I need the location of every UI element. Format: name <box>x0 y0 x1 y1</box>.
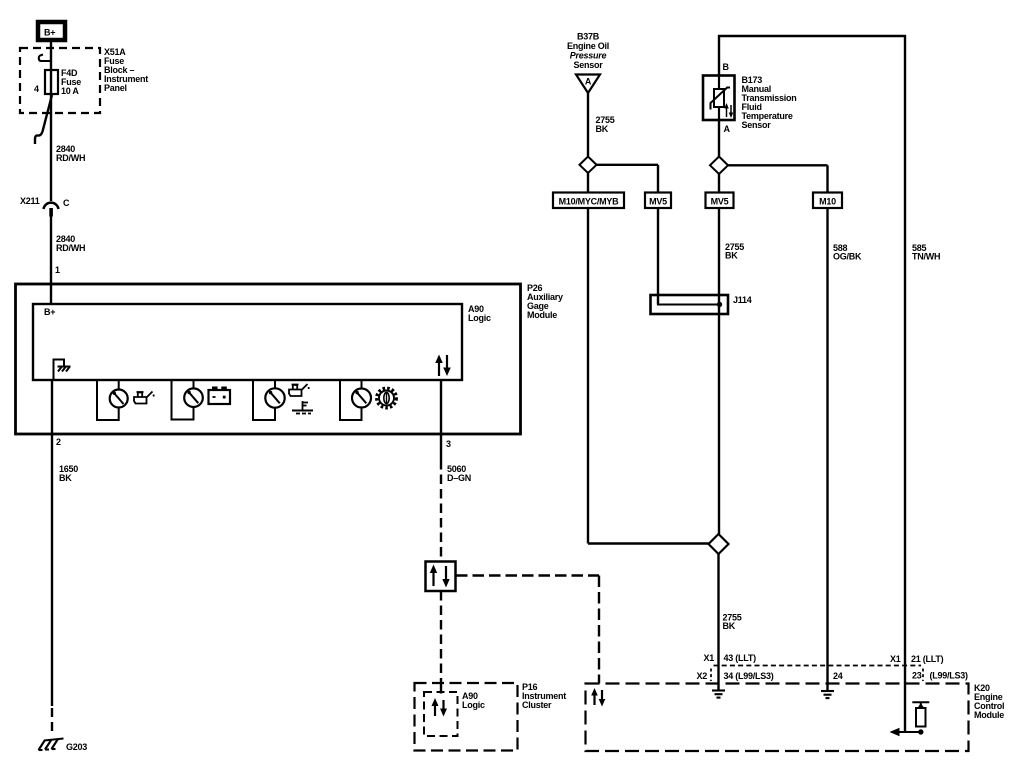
svg-text:24: 24 <box>833 671 843 681</box>
svg-text:M10: M10 <box>819 197 836 207</box>
svg-text:X211: X211 <box>20 196 40 206</box>
svg-text:B+: B+ <box>44 307 55 317</box>
svg-text:21 (LLT): 21 (LLT) <box>911 654 944 664</box>
svg-text:B37B: B37B <box>577 32 600 42</box>
svg-text:Sensor: Sensor <box>742 120 772 130</box>
svg-text:MV5: MV5 <box>711 197 729 207</box>
svg-text:Logic: Logic <box>468 313 491 323</box>
svg-text:Panel: Panel <box>104 83 127 93</box>
svg-text:Pressure: Pressure <box>570 51 607 61</box>
svg-text:C: C <box>63 198 70 208</box>
svg-text:34 (L99/LS3): 34 (L99/LS3) <box>724 671 774 681</box>
svg-text:43 (LLT): 43 (LLT) <box>724 653 757 663</box>
svg-text:10 A: 10 A <box>61 86 79 96</box>
svg-text:Module: Module <box>974 710 1004 720</box>
svg-text:A: A <box>585 77 592 87</box>
svg-text:BK: BK <box>723 621 736 631</box>
svg-text:D–GN: D–GN <box>447 473 471 483</box>
svg-text:Logic: Logic <box>462 700 485 710</box>
svg-text:Cluster: Cluster <box>522 700 552 710</box>
svg-text:BK: BK <box>596 124 609 134</box>
svg-text:RD/WH: RD/WH <box>56 243 85 253</box>
svg-text:Sensor: Sensor <box>573 60 603 70</box>
svg-text:J114: J114 <box>733 295 752 305</box>
svg-text:X1: X1 <box>703 653 714 663</box>
svg-text:RD/WH: RD/WH <box>56 153 85 163</box>
svg-text:TN/WH: TN/WH <box>912 252 940 262</box>
svg-text:BK: BK <box>725 251 738 261</box>
svg-text:G203: G203 <box>66 742 87 752</box>
svg-text:X1: X1 <box>890 654 901 664</box>
svg-text:3: 3 <box>446 439 451 449</box>
svg-text:BK: BK <box>59 473 72 483</box>
svg-text:(L99/LS3): (L99/LS3) <box>930 671 969 681</box>
svg-text:B: B <box>723 62 730 72</box>
svg-text:A: A <box>724 124 731 134</box>
svg-text:M10/MYC/MYB: M10/MYC/MYB <box>559 197 620 207</box>
svg-text:23: 23 <box>912 671 922 681</box>
svg-text:2: 2 <box>56 437 61 447</box>
svg-text:Engine Oil: Engine Oil <box>567 41 609 51</box>
svg-text:MV5: MV5 <box>649 197 667 207</box>
svg-text:Module: Module <box>527 310 557 320</box>
svg-text:OG/BK: OG/BK <box>833 252 862 262</box>
svg-text:B+: B+ <box>44 28 55 38</box>
svg-text:1: 1 <box>55 265 60 275</box>
svg-text:X2: X2 <box>696 671 707 681</box>
svg-text:4: 4 <box>34 84 39 94</box>
